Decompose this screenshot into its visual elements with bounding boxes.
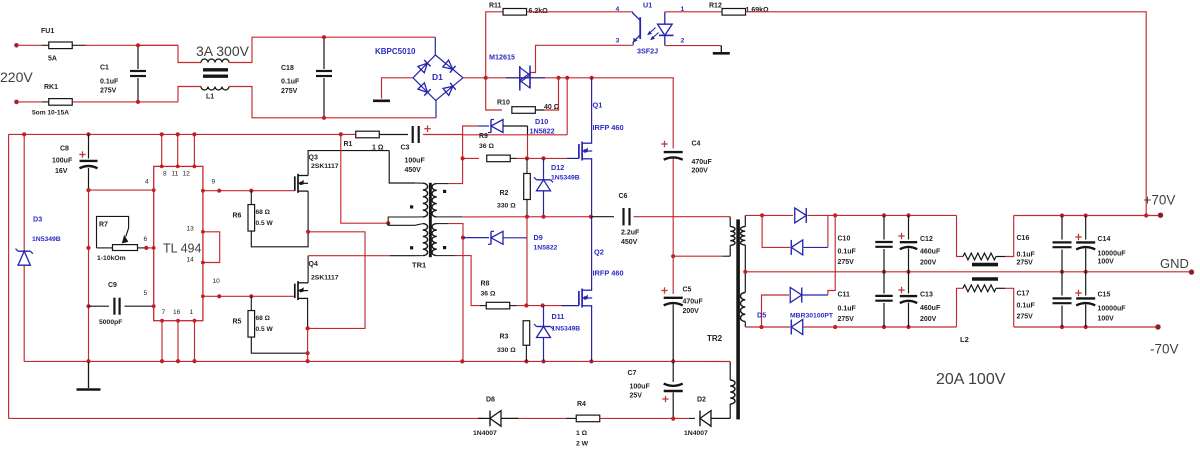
terminal: mains line N (14, 100, 19, 105)
wire: pins 8 11 12 to top rail (160, 134, 197, 168)
wire: R12 feedback to +70V rail (746, 12, 1147, 215)
svg-text:R12: R12 (709, 3, 722, 10)
svg-text:RK1: RK1 (44, 84, 58, 91)
capacitor C7 (628, 361, 683, 420)
label +70V (1144, 193, 1176, 208)
svg-text:2.2uF: 2.2uF (621, 230, 640, 237)
wire: +70V rail (1014, 213, 1164, 218)
svg-text:C1: C1 (100, 65, 109, 72)
capacitor C6 (591, 193, 730, 246)
wire: R6 bottom to Q3 source node (251, 231, 308, 247)
diode D5c (790, 288, 802, 303)
label 220V (0, 69, 33, 85)
svg-text:U1: U1 (643, 1, 652, 10)
wire: TR1 sec bottom to R8 (455, 256, 487, 306)
svg-text:275V: 275V (1017, 260, 1034, 267)
svg-text:330 Ω: 330 Ω (497, 347, 516, 354)
svg-text:100uF: 100uF (405, 158, 426, 165)
svg-text:3: 3 (616, 38, 620, 45)
svg-text:10000uF: 10000uF (1098, 306, 1127, 313)
wire: U1 pin1 to R12 (665, 11, 722, 13)
capacitor C1 (100, 43, 146, 104)
wire: bus to R11 (486, 12, 503, 78)
wire: R9 to Q1 gate (517, 156, 579, 160)
wire: TL494 gnd rail (x=88.5) (86, 190, 90, 363)
wire: control top rail (9, 132, 356, 136)
wire: TR1 sec top to R9/D10 node (448, 156, 465, 183)
svg-text:16: 16 (173, 309, 181, 316)
inductor L1 (common-mode choke) (196, 43, 250, 101)
svg-text:D8: D8 (486, 397, 495, 404)
svg-text:100V: 100V (1098, 259, 1115, 266)
svg-text:Q2: Q2 (594, 248, 604, 257)
svg-text:7: 7 (162, 309, 166, 316)
wire: R1 to C3 (379, 134, 408, 136)
wire: Q4 drain to TR1 bottom (308, 256, 415, 283)
wire: D10 to TR1 top node (463, 126, 478, 158)
svg-text:D3: D3 (33, 215, 42, 224)
svg-text:0.1uF: 0.1uF (838, 249, 857, 256)
svg-text:275V: 275V (100, 88, 117, 95)
label -70V (1150, 342, 1179, 357)
capacitor C13 (898, 272, 941, 327)
wire: Q4 source to bottom rail (306, 298, 310, 361)
svg-text:5: 5 (144, 290, 148, 297)
svg-text:R11: R11 (489, 3, 502, 10)
thermistor RK1 (32, 84, 72, 117)
svg-text:12: 12 (183, 171, 191, 178)
wire: secondary bottom (-) (745, 325, 956, 329)
wire: L terminal to FU1 (19, 44, 49, 46)
svg-text:2 W: 2 W (576, 441, 589, 448)
svg-text:R6: R6 (233, 213, 242, 220)
svg-text:100uF: 100uF (630, 384, 651, 391)
svg-text:1N5822: 1N5822 (530, 127, 555, 136)
wire: outer left rail (8, 134, 10, 418)
triac M12615 (489, 53, 545, 91)
svg-text:C9: C9 (108, 282, 117, 289)
svg-text:0.1uF: 0.1uF (281, 79, 300, 86)
svg-text:D12: D12 (551, 163, 564, 172)
diode D5d (791, 320, 803, 335)
capacitor C5 (661, 256, 703, 361)
label GND (1160, 256, 1189, 271)
capacitor C3 (401, 126, 463, 175)
wire: D8 to R4 (519, 417, 576, 419)
resistor R12 (709, 3, 769, 16)
resistor R5 (233, 296, 274, 337)
zener diode D3 (1N5349B) (16, 215, 61, 266)
transistor Q4 (2SK1117) (295, 261, 339, 300)
wire: Q3 drain to TR1 top (308, 151, 415, 183)
svg-text:IRFP 460: IRFP 460 (593, 269, 624, 278)
svg-text:1N4007: 1N4007 (684, 430, 708, 437)
svg-text:10: 10 (213, 278, 221, 285)
inductor L2 (common-mode choke) (957, 215, 1014, 344)
wire: bus corner to C4 (672, 78, 674, 149)
wire: TR1 sec mid to D9 node (448, 224, 465, 362)
wire: pin 9 to Q3 gate (201, 189, 295, 193)
svg-text:68 Ω: 68 Ω (256, 315, 271, 322)
svg-text:2: 2 (681, 38, 685, 45)
svg-text:1N5349B: 1N5349B (551, 175, 580, 182)
svg-text:1-10kOm: 1-10kOm (97, 255, 126, 262)
wire: bus to D10 (566, 78, 568, 135)
diode D10 (1N5822) (478, 117, 555, 136)
svg-text:1 Ω: 1 Ω (372, 145, 384, 152)
label 20A 100V (936, 371, 1006, 388)
diode D2 (1N4007) (684, 397, 730, 438)
resistor R2 (497, 158, 530, 216)
capacitor C14 (1075, 216, 1126, 272)
wire: rail to R1 (341, 133, 345, 135)
svg-text:FU1: FU1 (41, 28, 54, 35)
svg-text:200V: 200V (920, 260, 937, 267)
svg-text:-70V: -70V (1150, 342, 1179, 357)
svg-text:+70V: +70V (1144, 193, 1176, 208)
svg-text:0.1uF: 0.1uF (838, 306, 857, 313)
svg-text:4: 4 (616, 6, 620, 13)
svg-text:1N5822: 1N5822 (534, 245, 558, 252)
wire: bus to R10 (486, 78, 502, 110)
zener diode D11 (1N5349B) (534, 306, 580, 362)
svg-text:100uF: 100uF (52, 158, 73, 165)
svg-text:D10: D10 (535, 117, 548, 126)
wire: pin 6 to R7 (144, 246, 155, 250)
svg-text:0.1uF: 0.1uF (100, 79, 119, 86)
svg-text:C8: C8 (60, 146, 69, 153)
svg-text:1N5349B: 1N5349B (552, 326, 581, 333)
svg-text:100V: 100V (1098, 316, 1115, 323)
wire: R10 to bus (535, 78, 558, 110)
svg-text:4: 4 (145, 179, 149, 186)
svg-text:Q3: Q3 (309, 155, 318, 162)
wire: RK1 to L1 bottom (72, 87, 201, 102)
svg-text:1: 1 (190, 309, 194, 316)
svg-text:2SK1117: 2SK1117 (311, 163, 339, 170)
svg-text:C14: C14 (1098, 236, 1111, 243)
wire: pins 7 16 1 to bottom rail (160, 319, 196, 361)
capacitor C10 (838, 215, 893, 271)
resistor R11 (489, 3, 548, 16)
wire: TR1 mid tap to rail (341, 134, 415, 225)
svg-text:C4: C4 (692, 141, 701, 148)
svg-text:200V: 200V (692, 168, 709, 175)
svg-text:460uF: 460uF (920, 305, 941, 312)
svg-text:C7: C7 (628, 370, 637, 377)
svg-text:C6: C6 (619, 193, 628, 200)
ground (bridge) (373, 100, 390, 103)
wire: R5 bottom to Q4 source node (251, 337, 309, 355)
svg-text:D2: D2 (697, 397, 706, 404)
wire: U1 pin3 to M12615 gate (530, 45, 633, 72)
wire: -70V rail (1014, 324, 1161, 329)
svg-text:25V: 25V (630, 393, 643, 400)
svg-text:R4: R4 (577, 401, 586, 408)
svg-text:R9: R9 (479, 133, 488, 140)
svg-text:0.5 W: 0.5 W (256, 326, 274, 333)
wire: pin 4 to C8 (89, 188, 156, 192)
svg-text:R7: R7 (99, 222, 108, 229)
diode D5a (795, 208, 807, 223)
svg-text:0.5 W: 0.5 W (256, 220, 274, 227)
wire: bridge output bus (463, 76, 674, 80)
svg-text:0.1uF: 0.1uF (1017, 303, 1036, 310)
svg-text:1N4007: 1N4007 (473, 430, 497, 437)
svg-text:L1: L1 (206, 94, 214, 101)
wire: Q1 drain to bus (591, 78, 593, 143)
svg-text:C11: C11 (838, 292, 851, 299)
svg-text:R3: R3 (500, 334, 509, 341)
svg-text:220V: 220V (0, 69, 33, 85)
svg-text:2SK1117: 2SK1117 (311, 275, 339, 282)
svg-text:Q1: Q1 (593, 101, 603, 110)
wire: Q2 drain (591, 217, 593, 291)
svg-text:D9: D9 (534, 233, 543, 242)
svg-text:68 Ω: 68 Ω (256, 209, 271, 216)
svg-text:Q4: Q4 (309, 261, 318, 268)
capacitor C16 (1017, 216, 1072, 272)
svg-text:D5: D5 (757, 311, 766, 320)
svg-text:0.1uF: 0.1uF (1017, 252, 1036, 259)
svg-text:R5: R5 (233, 319, 242, 326)
transistor Q1 (IRFP460) (579, 101, 624, 161)
label D5 MBR30100PT (757, 311, 834, 320)
svg-text:20A 100V: 20A 100V (936, 371, 1006, 388)
svg-text:C17: C17 (1017, 291, 1030, 298)
svg-text:MBR30100PT: MBR30100PT (790, 313, 834, 320)
svg-text:3A 300V: 3A 300V (196, 43, 250, 59)
wire: Q2 source to bottom rail (591, 306, 593, 362)
transformer TR1 (410, 183, 463, 270)
capacitor C18 (281, 35, 332, 120)
potentiometer R7 (97, 216, 147, 262)
svg-text:L2: L2 (960, 335, 969, 344)
svg-text:D1: D1 (432, 72, 443, 82)
svg-text:275V: 275V (838, 316, 855, 323)
wire: D3 rail (23, 134, 25, 361)
resistor R4 (576, 401, 600, 448)
svg-text:TL 494: TL 494 (163, 242, 202, 256)
wire: control bottom rail (24, 359, 675, 364)
wire: Q1 source to mid node (589, 159, 593, 219)
wire: bridge left to ground (382, 78, 414, 99)
wire: L1 to C18 box (229, 37, 436, 118)
fuse FU1 (41, 28, 86, 63)
ground (TL494) (77, 361, 101, 389)
svg-text:16V: 16V (55, 168, 68, 175)
svg-text:R10: R10 (497, 100, 510, 107)
capacitor C17 (1017, 272, 1072, 327)
svg-text:200V: 200V (920, 316, 937, 323)
svg-text:5om 10-15A: 5om 10-15A (32, 110, 69, 117)
wire: R8 to Q2 gate (517, 303, 579, 307)
bridge rectifier D1 (KBPC5010) (375, 37, 463, 118)
svg-text:275V: 275V (281, 88, 298, 95)
diode D9 (1N5822) (463, 231, 558, 251)
resistor R1 (344, 131, 384, 151)
svg-text:C3: C3 (401, 145, 410, 152)
wire: C3 to gate node via x567 (463, 135, 568, 158)
resistor R10 (497, 100, 560, 114)
wire: bottom feedback loop (9, 417, 484, 419)
svg-text:R8: R8 (481, 281, 490, 288)
wire: N terminal to RK1 (19, 101, 49, 103)
svg-text:3SF2J: 3SF2J (637, 47, 658, 56)
diode D5b (791, 240, 803, 255)
svg-text:9: 9 (212, 179, 216, 186)
wire: D5b branch (762, 215, 828, 247)
wire: pin 10 to Q4 gate (201, 294, 295, 298)
optocoupler U1 (3SF2J) (616, 1, 685, 56)
wire: secondary top (+) (745, 213, 956, 217)
transistor Q2 (IRFP460) (579, 248, 624, 308)
wire: D9 to x527 line (526, 217, 528, 306)
svg-text:13: 13 (187, 226, 195, 233)
wire: C4-C5 midpoint to TR2 primary (671, 254, 730, 258)
svg-text:11: 11 (172, 171, 179, 178)
svg-text:C13: C13 (920, 292, 933, 299)
svg-text:450V: 450V (405, 167, 422, 174)
svg-text:C10: C10 (838, 236, 851, 243)
wire: D5c branch (762, 215, 836, 327)
svg-text:36 Ω: 36 Ω (479, 143, 494, 150)
svg-text:1N5349B: 1N5349B (32, 236, 61, 243)
svg-text:C12: C12 (920, 236, 933, 243)
svg-text:C18: C18 (281, 65, 294, 72)
svg-text:GND: GND (1160, 256, 1189, 271)
svg-text:TR2: TR2 (707, 334, 723, 343)
svg-text:6: 6 (144, 236, 148, 243)
wire: R4 to D2 (600, 417, 695, 419)
wire: R11 to U1 pin4 (527, 6, 633, 13)
svg-text:M12615: M12615 (489, 53, 515, 62)
resistor R9 (463, 133, 517, 162)
svg-text:200V: 200V (683, 308, 700, 315)
resistor R6 (233, 191, 274, 231)
svg-text:C16: C16 (1017, 235, 1030, 242)
svg-text:10000uF: 10000uF (1098, 251, 1127, 258)
svg-text:36 Ω: 36 Ω (481, 291, 496, 298)
svg-text:330 Ω: 330 Ω (497, 203, 516, 210)
capacitor C8 (52, 134, 98, 192)
zener diode D12 (1N5349B) (534, 158, 580, 216)
capacitor C15 (1075, 272, 1126, 327)
transistor Q3 (2SK1117) (295, 155, 339, 193)
svg-text:470uF: 470uF (683, 299, 704, 306)
wire: Q3 source to Q4 source (306, 191, 365, 328)
wire: secondary center tap to GND (743, 269, 1194, 274)
capacitor C4 (661, 141, 712, 257)
svg-text:TR1: TR1 (412, 261, 426, 270)
diode D8 (1N4007) (473, 397, 519, 438)
svg-text:KBPC5010: KBPC5010 (375, 47, 416, 56)
transformer TR2 (707, 215, 745, 419)
terminal: mains line L (14, 43, 19, 48)
capacitor C11 (838, 272, 893, 327)
svg-text:460uF: 460uF (920, 249, 941, 256)
svg-text:C5: C5 (683, 287, 692, 294)
svg-text:R1: R1 (344, 141, 353, 148)
svg-text:5000pF: 5000pF (99, 319, 122, 326)
IC U2 TL494 (144, 166, 221, 320)
svg-text:14: 14 (187, 257, 195, 264)
svg-text:275V: 275V (838, 259, 855, 266)
svg-text:C15: C15 (1098, 292, 1111, 299)
wire: pin 13 14 loop (201, 230, 220, 264)
capacitor C12 (898, 215, 941, 271)
resistor R3 (497, 321, 530, 362)
svg-text:D11: D11 (552, 312, 565, 321)
svg-text:R2: R2 (500, 190, 509, 197)
resistor R8 (481, 281, 517, 309)
svg-text:5A: 5A (48, 56, 57, 63)
svg-text:470uF: 470uF (692, 159, 713, 166)
ground (U1 pin 2) (713, 52, 730, 55)
svg-text:1.69kΩ: 1.69kΩ (746, 7, 770, 14)
svg-text:275V: 275V (1017, 314, 1034, 321)
svg-text:450V: 450V (621, 239, 638, 246)
wire: bottom rail to TR2 aux (673, 360, 730, 362)
wire: mid node line (463, 215, 591, 219)
svg-text:IRFP 460: IRFP 460 (593, 123, 624, 132)
capacitor C9 (89, 282, 156, 326)
svg-text:8: 8 (163, 171, 167, 178)
svg-text:1 Ω: 1 Ω (576, 430, 588, 437)
wire: U1 pin2 to ground (665, 46, 722, 52)
wire: FU1 to C1 node and corner to L1 (84, 45, 201, 62)
